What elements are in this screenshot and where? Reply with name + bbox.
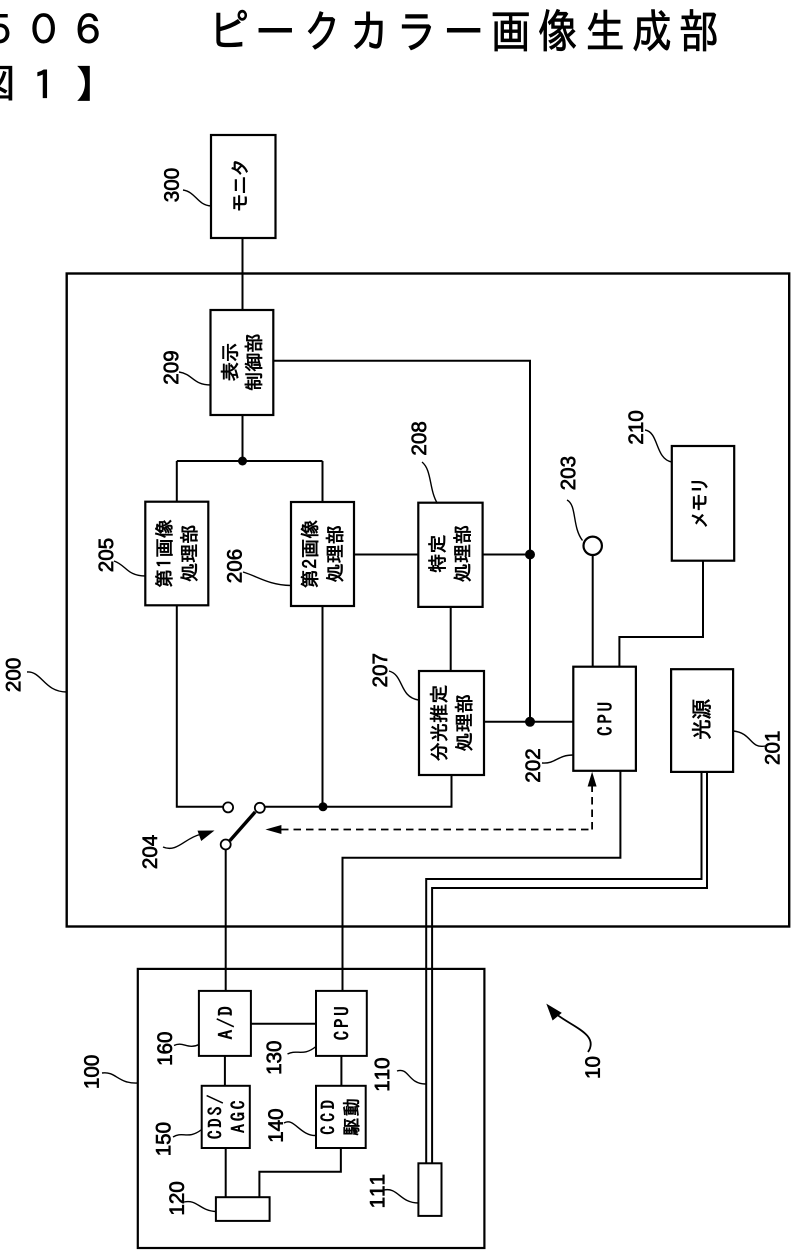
wire second image processor 206 down to switch bus [322,606,324,806]
reference numeral 110 [375,1058,390,1090]
reference numeral 207 [373,654,388,686]
switch 204 left contact [223,802,233,812]
reference numeral 130 [267,1041,282,1073]
wire spectral estimation 207 right to CPU 202 [484,721,573,723]
wire monitor 300 to display-control 209 [242,238,244,310]
text メモリ in box 210 [692,481,708,526]
wire light source 201 to light guide (inner) [432,772,707,1163]
junction dot at switch bus [319,802,328,811]
wire switch pole down to A/D 160 [225,850,227,991]
leader line for 160 [174,1044,199,1046]
text A/D in box 160 [217,1007,234,1039]
wire spectral estimation 207 down and left to switch right contact [265,775,451,807]
arrowhead of leader 204 [198,831,215,842]
reference numeral 150 [156,1123,171,1155]
wire light source 201 to light guide (outer) [426,772,701,1163]
text CPU in box 130 [334,1008,348,1040]
reference numeral 210 [629,411,644,444]
text CCD駆動 in box 140 [321,1100,360,1135]
text CPU in box 202 [597,703,611,735]
arrowhead of dashed line pointing at switch [265,825,281,834]
reference numeral 202 [526,749,541,781]
wire node 203 to CPU 202 top [592,555,594,666]
wire display-control 209 bottom to branch [242,415,244,461]
wire identify processor 208 to bus line [483,554,530,556]
wire A/D 160 to scope CPU 130 [251,1023,316,1025]
leader line for 10 (arrow) [555,1013,591,1052]
leader line for 201 [734,731,766,746]
processor enclosure box 200 [67,274,790,927]
leader line for 130 [288,1047,317,1055]
scope unit enclosure box 100 [138,969,485,1248]
text 光源 in box 201 [692,700,710,739]
junction dot at display-control branch [238,457,247,466]
leader line for 150 [173,1130,202,1138]
node 203 connector circle [584,537,602,555]
reference numeral 140 [268,1109,283,1141]
wire A/D 160 to CDS/AGC 150 [224,1056,226,1086]
wire branch down to second image processor 206 [322,461,324,502]
CPU box 202 [573,667,636,771]
spectral estimation box 207 分光推定処理部 [419,671,484,775]
reference numeral 300 [164,169,179,202]
wire scope CPU 130 to CCD drive 140 [340,1056,342,1086]
text CDS/AGC in box 150 [207,1095,244,1138]
text 特定処理部 in box 208 [429,526,471,581]
reference numeral 160 [157,1032,172,1064]
CDS/AGC box 150 [202,1086,250,1148]
leader line for 207 [389,671,419,700]
figure tag 【図1】 figure kanji (cut at left) [0,66,12,100]
reference numeral 204 [143,835,158,868]
A/D converter box 160 [199,991,251,1056]
dashed control line CPU 202 to switch 204 [281,786,592,830]
leader line for 204 (arrow) [163,835,200,849]
wire CDS/AGC 150 to image sensor 120 [225,1148,227,1197]
reference numeral 206 [227,550,242,583]
arrowhead of leader 10 [546,1004,562,1021]
leader line for 110 [397,1070,426,1084]
leader line for 140 [284,1122,316,1136]
reference numeral 10 [585,1057,600,1078]
switch 204 arm [230,812,255,841]
wire branch horizontal to image processors [177,460,323,462]
scope CPU box 130 [316,991,367,1056]
leader line for 100 [102,1073,138,1083]
reference numeral 120 [169,1182,184,1214]
text 第2画像処理部 in box 206 [301,521,343,588]
leader line for 206 [243,572,291,586]
reference numeral 205 [99,539,114,572]
leader line for 203 [567,500,583,541]
junction dot bus at spectral estimation [525,717,535,727]
reference numeral 208 [412,422,427,455]
leader line for 202 [542,755,573,763]
image sensor box 120 [216,1197,270,1221]
leader line for 111 [384,1190,418,1203]
leader line for 300 [183,190,211,206]
wire branch down to first image processor 205 [176,461,178,502]
reference numeral 209 [164,351,179,383]
wire identify processor 208 down to spectral estimation 207 [450,607,452,671]
wire CCD drive 140 to image sensor 120 [259,1148,340,1197]
figure tag 【図1】 closing bracket [77,66,90,101]
header title ピークカラー画像生成部 [217,9,717,51]
leader line for 208 [422,462,438,504]
identify processor box 208 特定処理部 [418,503,482,607]
reference numeral 200 [6,659,21,692]
reference numeral 201 [765,732,780,764]
memory box 210 メモリ [672,446,734,561]
arrowhead of dashed line pointing at CPU 202 [588,772,597,787]
text 第1画像処理部 in box 205 [155,520,197,587]
wire display-control 209 right to bus line [273,361,530,722]
light source box 201 光源 [671,669,733,772]
CCD drive box 140 [316,1086,366,1148]
wire first image processor 205 down to switch left contact [177,605,223,807]
reference numeral 100 [84,1056,99,1088]
figure tag 【図1】 digit 1 [38,70,47,98]
leader line for 210 [645,430,672,462]
wire memory 210 to CPU 202 [619,561,703,667]
reference numeral 203 [561,457,576,490]
light guide end box 111 [418,1163,441,1216]
junction dot bus at identify processor [525,550,535,560]
monitor box 300 [211,135,276,238]
wire second image processor 206 to identify processor 208 [354,554,418,556]
reference numeral 111 [370,1175,384,1207]
header number 506 (partially cut at left) [0,13,98,43]
display control box 209 表示制御部 [211,310,274,415]
text モニタ in box 300 [232,161,248,210]
leader line for 209 [179,372,211,385]
switch 204 pole contact [221,840,231,850]
leader line for 200 [27,672,67,692]
text 分光推定処理部 in box 207 [430,686,472,761]
leader line for 205 [114,561,145,576]
switch 204 right contact [255,803,265,813]
wire CPU 202 down-left to scope CPU 130 [343,771,621,991]
text 表示制御部 in box 209 [221,335,262,390]
second image processor box 206 第2画像処理部 [291,502,354,606]
first image processor box 205 第1画像処理部 [145,502,208,606]
leader line for 120 [184,1202,216,1212]
